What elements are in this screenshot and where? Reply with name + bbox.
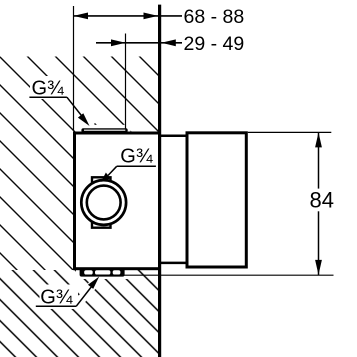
valve body (75, 133, 160, 269)
arrow 68-88 left (74, 13, 89, 20)
dimension line 68-88 (74, 15, 183, 17)
extension line port x=125.5 (125, 34, 127, 129)
svg-text:G¾: G¾ (32, 78, 65, 100)
arrow 84 down (315, 260, 322, 275)
top port strip inner white (84, 129, 125, 131)
dimension line 29-49 (96, 42, 182, 44)
arrow 84 up (315, 132, 322, 147)
cartridge housing U1 (187, 133, 246, 267)
arrowhead G3/4 top (78, 113, 90, 126)
bottom port window 3 (113, 270, 121, 274)
wall hatching upper field (0, 57, 158, 271)
leader G3/4 top (67, 97, 83, 117)
halo bottom label (40, 285, 79, 310)
halo top-left leader (60, 90, 97, 132)
svg-text:84: 84 (310, 188, 334, 213)
dimension line 84 lower (318, 211, 320, 275)
front port inner circle (87, 186, 121, 220)
svg-text:G¾: G¾ (40, 286, 73, 308)
wall hatching lower field (0, 270, 158, 357)
bottom port bar (80, 268, 125, 277)
halo top port strip (79, 125, 131, 134)
wall face line (158, 5, 161, 357)
leader G3/4 middle (108, 166, 117, 175)
arrowhead G3/4 middle (101, 173, 110, 182)
arrowhead G3/4 bottom (88, 277, 99, 289)
arrow 29-49 left (111, 39, 126, 46)
neck top edge (161, 135, 188, 138)
bottom port window 1 (84, 270, 93, 274)
underline G3/4 middle (117, 165, 156, 167)
svg-text:29 - 49: 29 - 49 (184, 33, 245, 55)
extension line 84 top (248, 131, 331, 133)
arrow 29-49 right (161, 39, 176, 46)
leader G3/4 bottom (76, 286, 92, 306)
extension line body back x=73.5 (73, 6, 75, 131)
neck bottom edge (161, 262, 188, 265)
halo bottom leader (73, 274, 103, 309)
extension line 84 bottom (123, 274, 334, 276)
underline G3/4 top (29, 96, 67, 98)
underline G3/4 bottom (36, 305, 76, 307)
front port tab plate (92, 177, 111, 227)
halo bottom port bar (76, 268, 129, 279)
top port strip (81, 128, 127, 132)
front port outer circle (81, 180, 126, 225)
svg-text:G¾: G¾ (120, 146, 153, 168)
dimension line 84 upper (318, 132, 320, 188)
arrow 68-88 right (144, 13, 159, 20)
halo top-left label (30, 76, 67, 99)
svg-text:68 - 88: 68 - 88 (184, 6, 245, 28)
bottom port window 2 (95, 270, 110, 274)
